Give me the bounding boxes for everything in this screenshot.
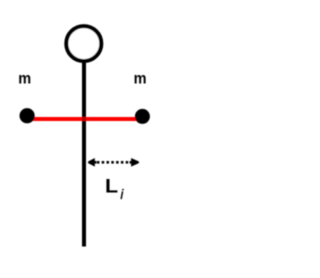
rod (vertical line) xyxy=(82,58,86,247)
mass dot left xyxy=(20,108,35,123)
mass dot right xyxy=(135,109,150,124)
svg-text:L: L xyxy=(105,175,118,197)
svg-text:i: i xyxy=(120,187,124,202)
rod-red crossing shade xyxy=(82,117,86,121)
pivot circle xyxy=(66,26,101,61)
svg-text:m: m xyxy=(134,71,147,88)
svg-text:m: m xyxy=(18,71,31,88)
red bar xyxy=(27,117,143,121)
dotted double arrow Li span xyxy=(88,158,139,167)
